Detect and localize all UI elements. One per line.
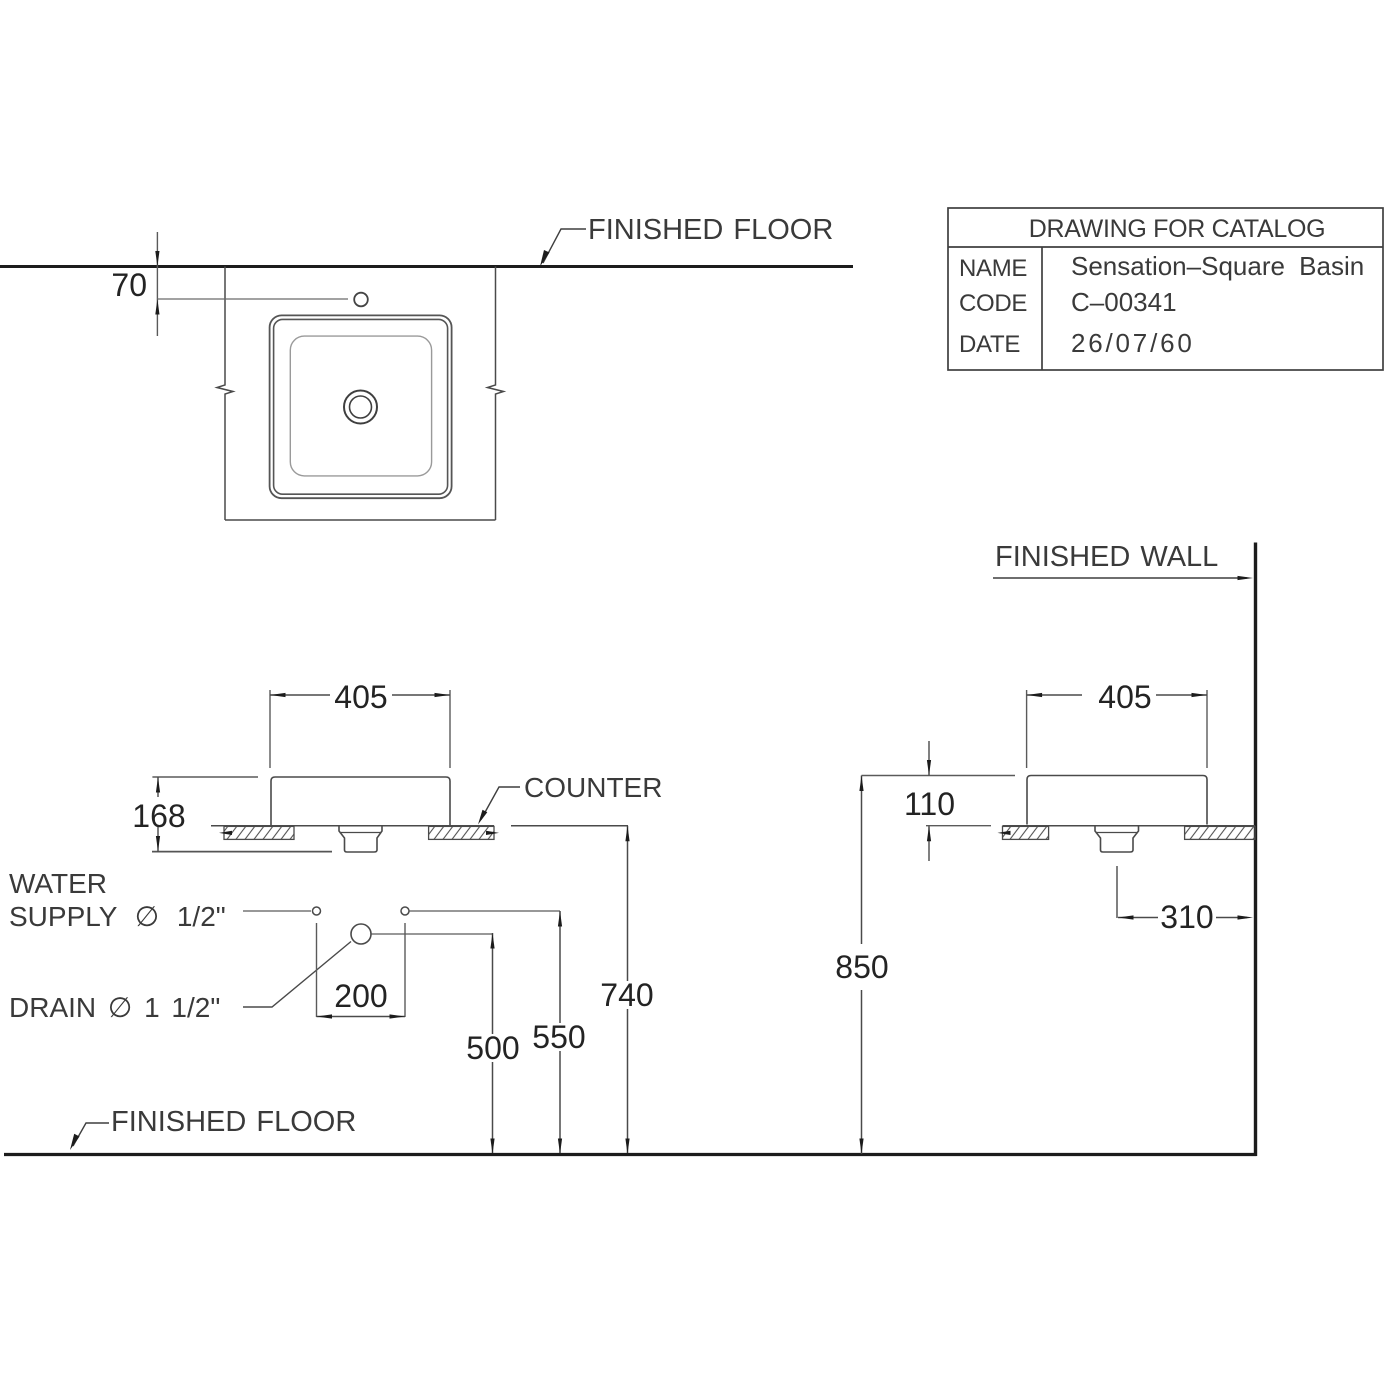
counter surface line (side) xyxy=(1003,825,1256,827)
drain reference to 500 dim xyxy=(372,933,493,935)
basin bowl (plan) xyxy=(290,336,431,476)
dim 405 (front) extension line left xyxy=(269,690,271,768)
counter hatch left (side) xyxy=(998,826,1049,839)
finished floor line (plan, thick) xyxy=(0,265,853,268)
water supply reference to 550 dim xyxy=(410,910,561,912)
counter hatch right (side) xyxy=(1185,826,1255,839)
svg-text:DATE: DATE xyxy=(959,331,1020,358)
svg-text:200: 200 xyxy=(334,978,387,1014)
svg-text:DRAIN ∅ 1 1/2": DRAIN ∅ 1 1/2" xyxy=(9,992,220,1023)
svg-text:310: 310 xyxy=(1160,899,1213,935)
dim 405 (side) extension left xyxy=(1026,690,1028,768)
svg-text:550: 550 xyxy=(532,1019,585,1055)
svg-text:850: 850 xyxy=(835,949,888,985)
water supply hole left xyxy=(313,907,321,915)
svg-text:Sensation–Square Basin: Sensation–Square Basin xyxy=(1071,251,1364,281)
water supply label xyxy=(9,868,226,932)
550 dim line xyxy=(558,911,562,1154)
title block column divider xyxy=(1041,247,1043,370)
wall line (thick) xyxy=(1254,543,1257,1157)
500 dim line xyxy=(490,933,494,1154)
dim 168 bottom reference line xyxy=(152,851,332,853)
counter outline (plan) right side with break xyxy=(488,267,504,521)
counter leader xyxy=(478,787,520,825)
svg-text:FINISHED FLOOR: FINISHED FLOOR xyxy=(111,1106,356,1138)
title block outer box xyxy=(948,208,1383,370)
finished floor label (top) xyxy=(588,214,833,246)
basin body (side) xyxy=(1027,776,1207,825)
svg-text:500: 500 xyxy=(466,1030,519,1066)
110 bottom reference line xyxy=(926,825,991,827)
dim 405 (front) extension line right xyxy=(449,690,451,768)
counter outline (plan) bottom xyxy=(225,519,496,521)
counter hatch left (front) xyxy=(219,826,294,839)
drain leader xyxy=(243,942,351,1008)
drain tail line (side) xyxy=(1116,866,1118,918)
counter hatch right (front) xyxy=(429,826,499,839)
svg-text:CODE: CODE xyxy=(959,290,1027,317)
svg-text:70: 70 xyxy=(111,267,147,303)
water supply hole right xyxy=(401,907,409,915)
dim 168 arrows xyxy=(156,777,160,852)
svg-text:DRAWING FOR CATALOG: DRAWING FOR CATALOG xyxy=(1029,215,1326,243)
drain hole (front) xyxy=(351,924,371,944)
water supply leader xyxy=(243,910,311,912)
svg-text:C–00341: C–00341 xyxy=(1071,287,1177,317)
counter surface line (front) xyxy=(211,825,494,827)
svg-text:NAME: NAME xyxy=(959,255,1027,282)
basin top extension line (side) xyxy=(862,775,1016,777)
310 dim line + arrows xyxy=(1118,915,1253,919)
drain fitting (side) xyxy=(1095,826,1139,852)
svg-text:COUNTER: COUNTER xyxy=(524,772,662,803)
svg-text:168: 168 xyxy=(132,798,185,834)
dim 405 (side) dimension line + arrows xyxy=(1027,693,1207,697)
svg-text:FINISHED WALL: FINISHED WALL xyxy=(995,541,1218,573)
svg-text:110: 110 xyxy=(904,786,955,822)
drain inner circle (plan) xyxy=(350,396,372,418)
200 dim line + arrows xyxy=(317,1014,406,1018)
basin rim outer (plan) xyxy=(270,315,452,498)
svg-text:405: 405 xyxy=(334,679,387,715)
counter outline (plan) left side with break xyxy=(217,267,233,521)
finished floor leader (bottom) xyxy=(70,1123,109,1150)
dimension 70 line xyxy=(155,232,159,336)
850 dim line xyxy=(859,776,863,1155)
svg-text:405: 405 xyxy=(1098,679,1151,715)
dim 405 (side) extension right xyxy=(1206,690,1208,768)
dim 168 top reference line xyxy=(152,776,258,778)
drain fitting (front) xyxy=(339,826,382,852)
drain outer circle (plan) xyxy=(344,391,377,424)
svg-text:SUPPLY ∅ 1/2": SUPPLY ∅ 1/2" xyxy=(9,901,226,932)
svg-text:FINISHED FLOOR: FINISHED FLOOR xyxy=(588,214,833,246)
svg-text:26/07/60: 26/07/60 xyxy=(1071,328,1195,358)
leader to finished floor line (top) xyxy=(540,229,586,267)
dimension 70 reference line to faucet hole xyxy=(157,298,348,300)
floor line (thick) xyxy=(4,1153,1257,1156)
200 dim extension right xyxy=(404,923,406,1017)
finished wall underline with arrow xyxy=(993,576,1253,580)
svg-text:WATER: WATER xyxy=(9,868,107,899)
basin rim inner line (plan) xyxy=(274,319,448,494)
110 dim arrows xyxy=(927,741,931,861)
title block header divider xyxy=(948,246,1383,248)
faucet hole (plan) xyxy=(354,293,368,307)
svg-text:740: 740 xyxy=(600,977,653,1013)
740 dim line xyxy=(625,826,629,1154)
basin body (front) xyxy=(271,777,450,826)
dim 405 (front) dimension line + arrows xyxy=(270,693,450,697)
200 dim extension left xyxy=(316,923,318,1017)
